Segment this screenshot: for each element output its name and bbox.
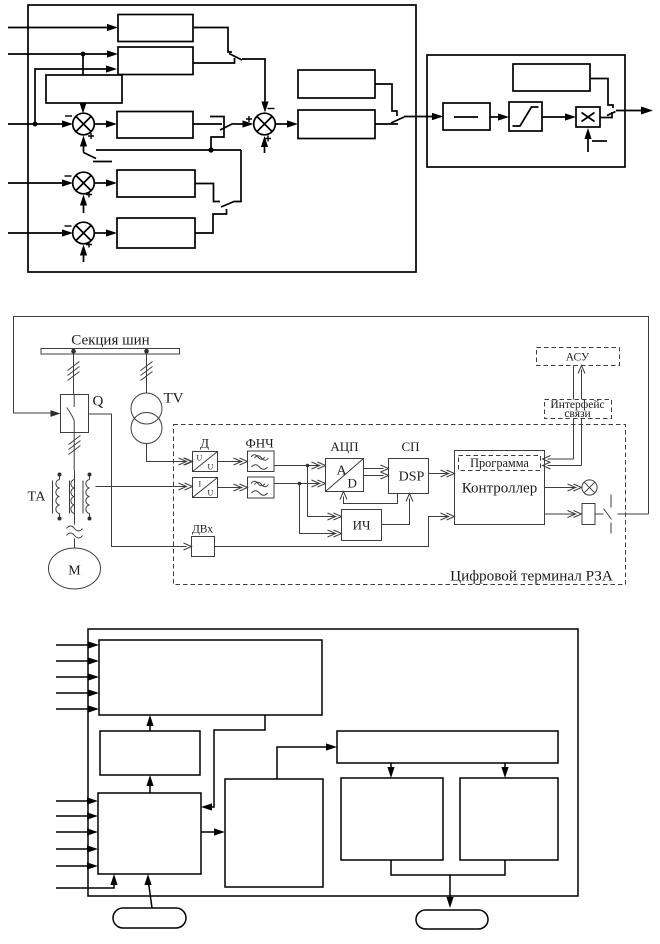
svg-text:U: U (208, 463, 214, 472)
svg-text:А: А (337, 464, 348, 479)
svg-text:связи: связи (564, 408, 590, 420)
svg-text:TV: TV (164, 391, 184, 407)
svg-text:U: U (208, 489, 214, 498)
svg-text:ТА: ТА (28, 490, 47, 505)
svg-text:Программа: Программа (470, 456, 529, 470)
svg-text:М: М (68, 564, 81, 579)
svg-text:АЦП: АЦП (330, 439, 358, 454)
svg-text:ДВх: ДВх (192, 524, 213, 536)
svg-text:СП: СП (401, 439, 419, 454)
svg-text:Q: Q (93, 394, 104, 410)
svg-text:АСУ: АСУ (566, 352, 590, 364)
svg-text:U: U (197, 454, 203, 463)
svg-text:Секция шин: Секция шин (71, 333, 149, 349)
svg-text:DSP: DSP (399, 470, 425, 485)
svg-text:I: I (199, 480, 202, 489)
svg-text:ИЧ: ИЧ (353, 518, 371, 533)
svg-text:Цифровой терминал РЗА: Цифровой терминал РЗА (450, 568, 613, 585)
svg-text:D: D (348, 476, 357, 491)
svg-text:ФНЧ: ФНЧ (245, 436, 274, 451)
svg-text:Д: Д (200, 436, 209, 451)
svg-text:Контроллер: Контроллер (462, 481, 537, 497)
